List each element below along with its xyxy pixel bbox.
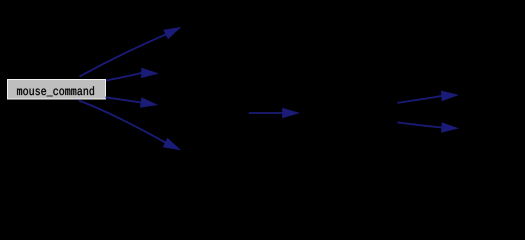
node mouse_command: [8, 80, 106, 100]
wire edge 2: [106, 68, 157, 80]
wire edge 1: [80, 28, 181, 77]
wire edge 3: [106, 97, 157, 107]
wire edge 7: [397, 122, 457, 132]
wire edge 6: [397, 91, 457, 103]
wire edge 4: [79, 101, 180, 150]
wire edge 5: [249, 108, 299, 117]
